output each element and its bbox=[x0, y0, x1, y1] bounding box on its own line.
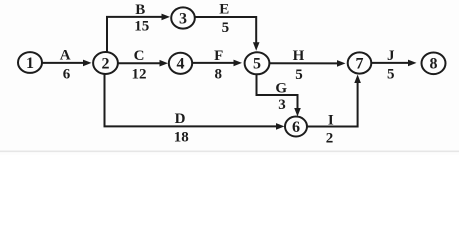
node 3 bbox=[171, 7, 195, 28]
wire D (2 down and right to 6) bbox=[105, 74, 285, 130]
svg-text:5: 5 bbox=[387, 66, 395, 82]
scan artifact bottom band bbox=[0, 151, 459, 153]
svg-text:2: 2 bbox=[102, 55, 110, 72]
label 6 bbox=[63, 66, 71, 82]
svg-text:3: 3 bbox=[179, 10, 187, 27]
wire E (3 right and down to 5) bbox=[195, 17, 260, 51]
label 5H bbox=[295, 67, 303, 83]
svg-text:5: 5 bbox=[295, 67, 303, 83]
wire F (4 to 5) bbox=[192, 60, 242, 67]
svg-text:B: B bbox=[135, 2, 145, 18]
svg-text:3: 3 bbox=[278, 97, 286, 113]
svg-text:7: 7 bbox=[356, 55, 364, 72]
label 8 bbox=[214, 66, 222, 82]
label B bbox=[135, 2, 145, 18]
svg-text:8: 8 bbox=[430, 56, 438, 73]
svg-text:1: 1 bbox=[26, 55, 34, 72]
label E bbox=[219, 2, 229, 18]
svg-text:12: 12 bbox=[132, 66, 147, 82]
node 6 bbox=[285, 117, 307, 137]
svg-text:6: 6 bbox=[63, 66, 71, 82]
node 2 bbox=[93, 52, 118, 74]
svg-text:I: I bbox=[328, 112, 334, 128]
svg-text:C: C bbox=[134, 48, 145, 64]
wire J (7 to 8) bbox=[372, 60, 417, 67]
node 1 bbox=[18, 52, 42, 73]
label J bbox=[387, 48, 395, 64]
svg-text:G: G bbox=[275, 80, 287, 96]
wire H (5 to 7) bbox=[269, 60, 345, 67]
svg-text:A: A bbox=[60, 48, 71, 64]
label 12 bbox=[132, 66, 147, 82]
svg-text:2: 2 bbox=[326, 130, 334, 146]
label D bbox=[175, 111, 186, 127]
label G bbox=[275, 80, 287, 96]
node 5 bbox=[245, 52, 270, 74]
svg-text:5: 5 bbox=[222, 20, 230, 36]
label C bbox=[134, 48, 145, 64]
svg-text:E: E bbox=[219, 2, 229, 18]
wire B (2 up and right to 3) bbox=[107, 14, 170, 54]
svg-text:8: 8 bbox=[214, 66, 222, 82]
svg-text:4: 4 bbox=[177, 56, 185, 73]
svg-text:18: 18 bbox=[174, 130, 189, 146]
svg-text:F: F bbox=[214, 48, 223, 64]
label A bbox=[60, 48, 71, 64]
svg-text:6: 6 bbox=[292, 119, 300, 136]
svg-text:J: J bbox=[387, 48, 395, 64]
svg-text:D: D bbox=[175, 111, 186, 127]
node 4 bbox=[169, 53, 192, 74]
svg-text:15: 15 bbox=[134, 18, 149, 34]
wire G (5 down and right to 6) bbox=[257, 75, 301, 117]
label 18 bbox=[174, 130, 189, 146]
node 8 bbox=[422, 53, 446, 75]
label H bbox=[293, 48, 305, 64]
svg-text:H: H bbox=[293, 48, 305, 64]
wire I (6 right and up to 7) bbox=[308, 75, 361, 127]
label 5J bbox=[387, 66, 395, 82]
label F bbox=[214, 48, 223, 64]
wire C (2 to 4) bbox=[118, 60, 168, 67]
label 5E bbox=[222, 20, 230, 36]
label I bbox=[328, 112, 334, 128]
svg-text:5: 5 bbox=[253, 56, 261, 73]
label 3 bbox=[278, 97, 286, 113]
node 7 bbox=[348, 52, 372, 73]
label 2 bbox=[326, 130, 334, 146]
label 15 bbox=[134, 18, 149, 34]
wire A (1 to 2) bbox=[42, 60, 92, 67]
